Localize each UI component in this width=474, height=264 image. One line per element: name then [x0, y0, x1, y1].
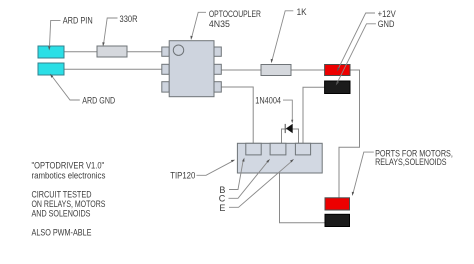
wire: [291, 69, 325, 71]
op-amp U1 optocoupler 4N35: [162, 41, 221, 97]
svg-text:GND: GND: [378, 19, 395, 29]
terminal +12V red: [325, 65, 350, 76]
leader 1K: [272, 11, 294, 61]
wire: [64, 51, 97, 53]
terminal GND black: [325, 81, 350, 94]
svg-text:E: E: [219, 203, 225, 213]
connector ARD PIN: [38, 46, 64, 58]
leader ARD GND: [52, 76, 80, 100]
leader OPTOCOUPLER: [192, 12, 207, 38]
svg-text:TIP120: TIP120: [170, 171, 195, 181]
wire: [221, 87, 253, 144]
leader PORTS: [353, 152, 374, 194]
leader ARD PIN: [49, 20, 60, 48]
svg-text:330R: 330R: [120, 14, 138, 24]
leader GND: [337, 24, 376, 84]
connector ARD GND: [38, 63, 64, 75]
leader C: [229, 161, 269, 199]
svg-text:ON RELAYS, MOTORS: ON RELAYS, MOTORS: [32, 199, 106, 209]
svg-text:"OPTODRIVER V1.0": "OPTODRIVER V1.0": [32, 161, 105, 171]
wire: [282, 129, 299, 144]
svg-text:ARD GND: ARD GND: [82, 96, 115, 106]
transistor Q1 TIP120: [237, 143, 322, 173]
note text block: [32, 161, 106, 238]
wire: [127, 51, 162, 53]
wire: [303, 87, 325, 144]
wire: [221, 69, 261, 71]
leader 1N4004: [283, 100, 292, 121]
leader TIP120: [197, 161, 234, 176]
svg-text:AND SOLENOIDS: AND SOLENOIDS: [32, 209, 91, 219]
svg-text:rambotics electronics: rambotics electronics: [32, 170, 106, 180]
wire: [339, 70, 360, 198]
svg-text:1K: 1K: [297, 7, 307, 17]
resistor 1K: [261, 65, 291, 76]
leader B: [229, 160, 243, 190]
wire: [64, 68, 162, 70]
svg-text:+12V: +12V: [378, 9, 396, 19]
svg-text:ALSO PWM-ABLE: ALSO PWM-ABLE: [32, 228, 92, 238]
svg-text:4N35: 4N35: [209, 19, 230, 29]
svg-text:OPTOCOUPLER: OPTOCOUPLER: [209, 9, 261, 19]
resistor 330R: [97, 46, 127, 57]
leader +12V: [338, 13, 375, 70]
svg-text:CIRCUIT TESTED: CIRCUIT TESTED: [32, 189, 92, 199]
leader 330R: [104, 18, 118, 45]
svg-text:1N4004: 1N4004: [255, 95, 281, 105]
wire: [280, 173, 326, 223]
svg-text:RELAYS,SOLENOIDS: RELAYS,SOLENOIDS: [375, 157, 447, 167]
port black motors: [325, 214, 350, 226]
port red motors: [325, 198, 350, 210]
leader E: [229, 161, 292, 208]
diode D1 1N4004: [285, 124, 293, 134]
svg-text:ARD PIN: ARD PIN: [63, 15, 93, 25]
